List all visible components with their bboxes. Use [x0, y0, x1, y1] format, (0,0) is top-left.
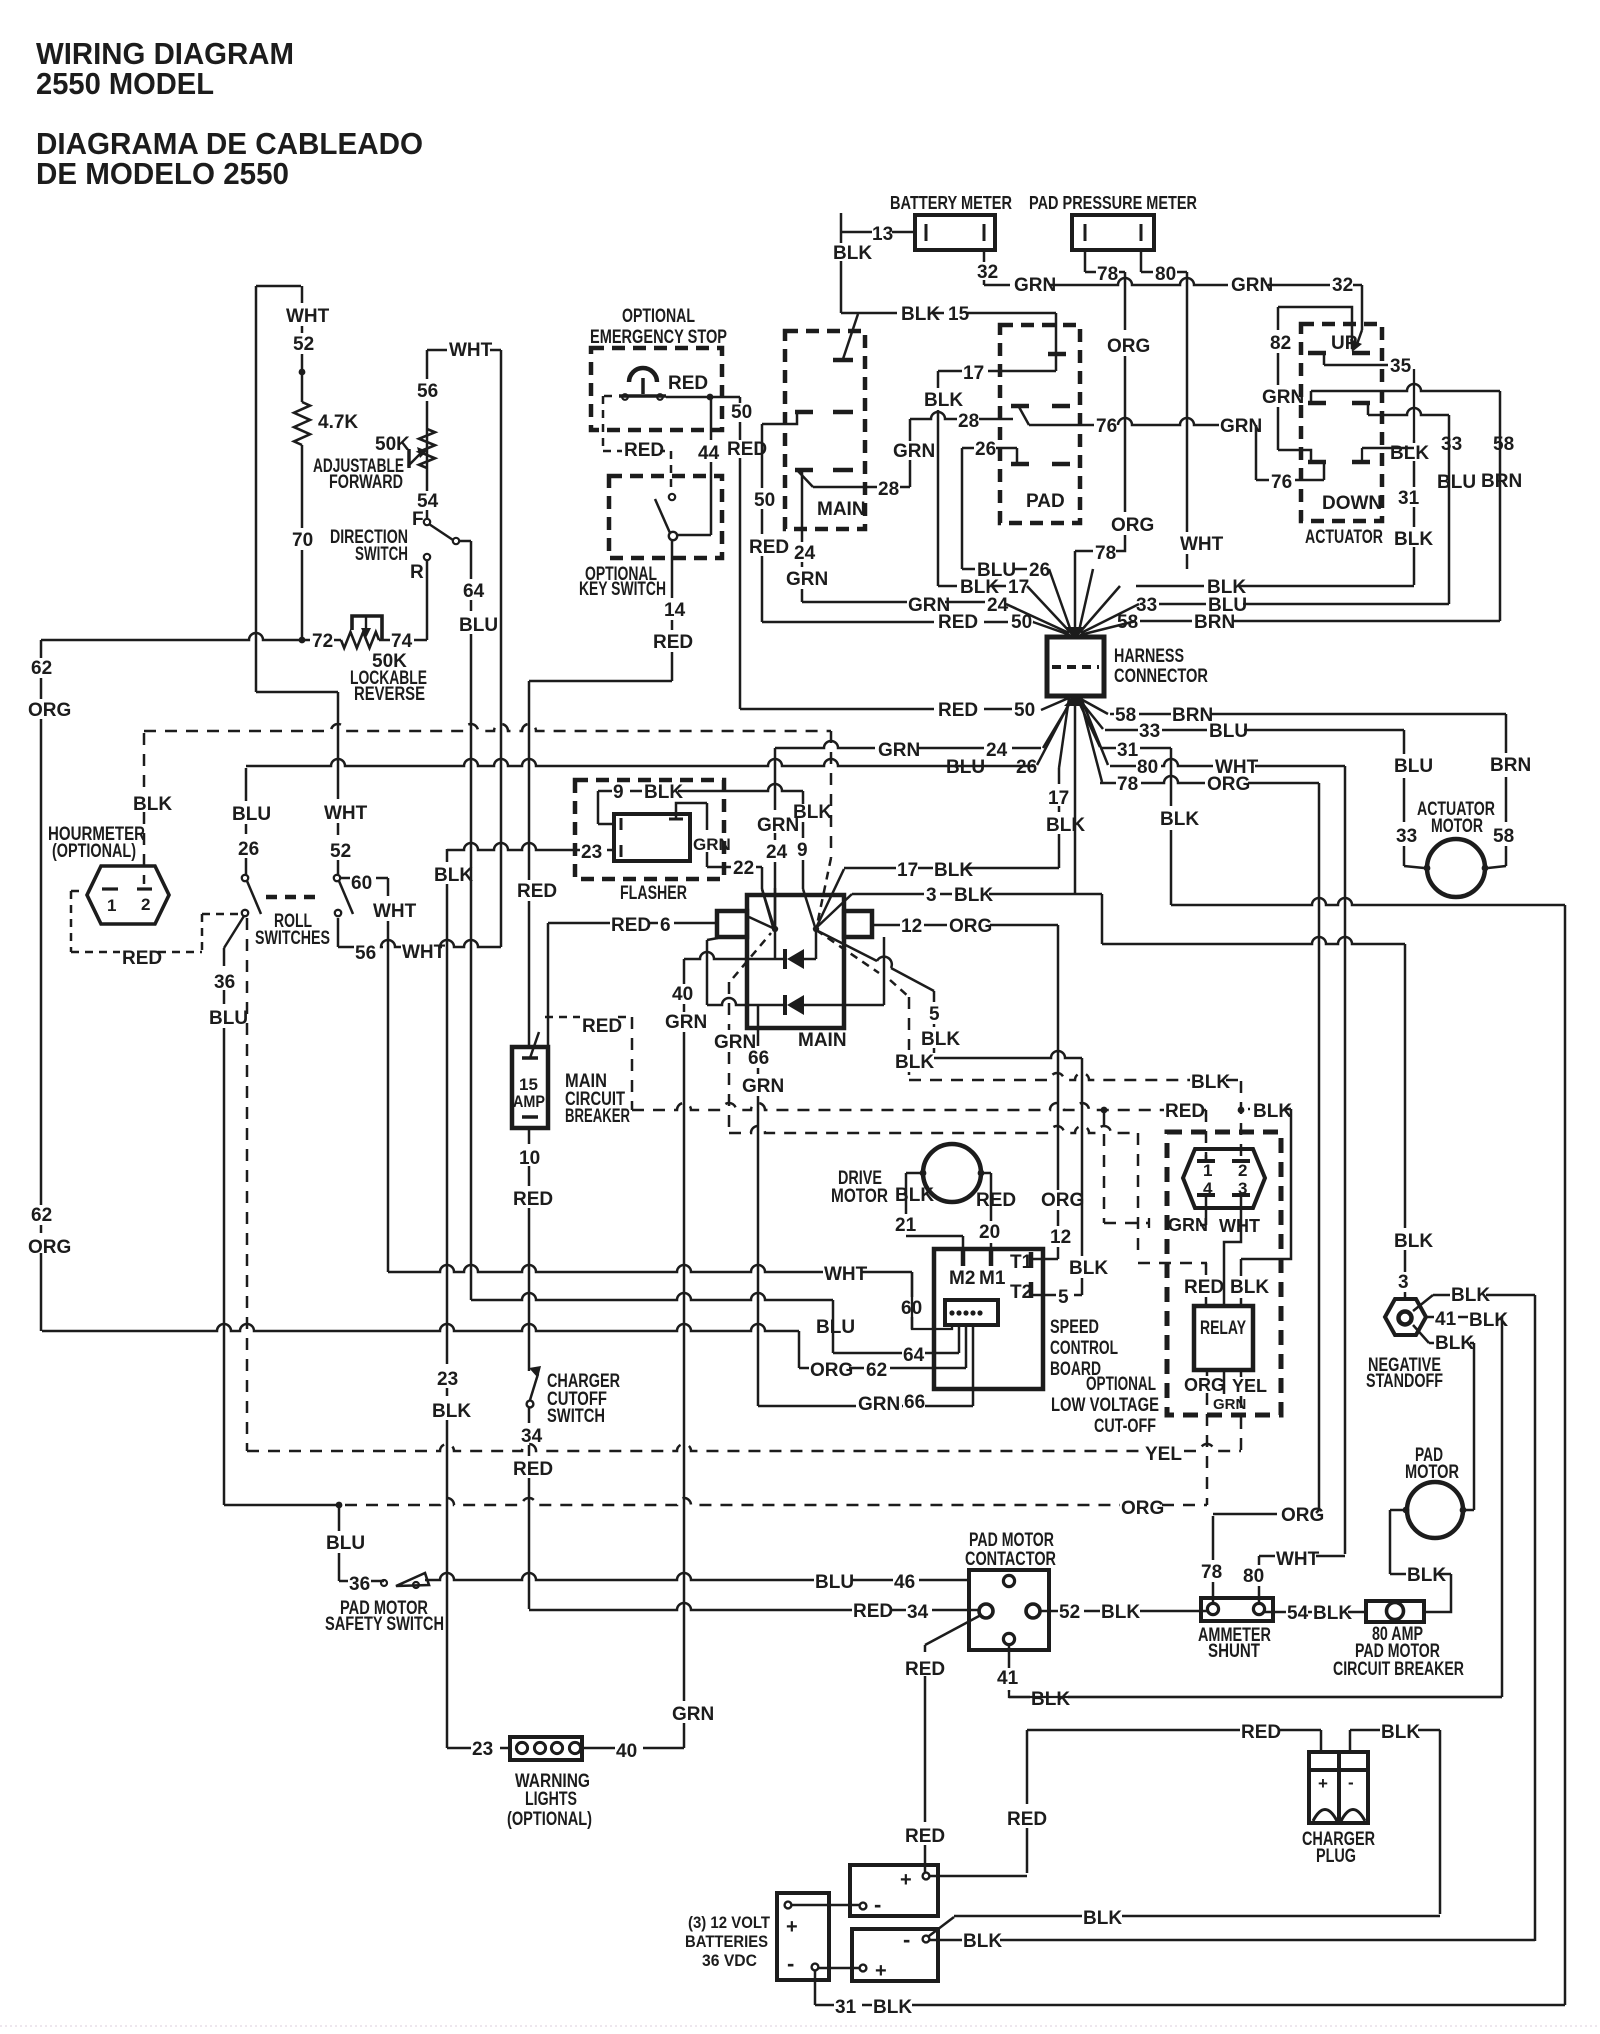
pin 3 wire WHT to relay	[1240, 1197, 1243, 1238]
drive motor	[923, 1144, 981, 1202]
speed control board	[934, 1249, 1043, 1389]
svg-text:BLK: BLK	[1160, 809, 1199, 830]
pad motor	[1407, 1482, 1463, 1538]
solid BLK wire from dot to relay	[1248, 1108, 1291, 1111]
svg-text:RED: RED	[122, 948, 162, 969]
svg-text:23: 23	[437, 1369, 458, 1390]
harness bottom fan	[1041, 697, 1071, 710]
svg-text:58: 58	[1493, 826, 1514, 847]
svg-text:BLU: BLU	[232, 804, 271, 825]
wire 54 BLK shunt to breaker	[1265, 1611, 1366, 1614]
svg-text:BRN: BRN	[1194, 612, 1235, 633]
svg-text:BLK: BLK	[1101, 1602, 1140, 1623]
svg-text:ACTUATOR: ACTUATOR	[1305, 527, 1383, 548]
svg-text:R: R	[410, 562, 424, 583]
svg-text:SPEED: SPEED	[1050, 1317, 1099, 1338]
svg-text:REVERSE: REVERSE	[354, 684, 425, 705]
svg-text:5: 5	[1058, 1287, 1069, 1308]
svg-text:24: 24	[794, 543, 816, 564]
svg-text:SWITCH: SWITCH	[355, 544, 408, 565]
relay bottom wires ORG YEL GRN	[1206, 1370, 1209, 1376]
svg-text:70: 70	[292, 530, 313, 551]
svg-text:AMP: AMP	[513, 1092, 545, 1111]
svg-text:CONTACTOR: CONTACTOR	[965, 1549, 1056, 1570]
dashed BLK from right junction	[816, 930, 879, 973]
wire GRN 66 rail	[757, 1005, 760, 1406]
svg-text:BLK: BLK	[1451, 1285, 1490, 1306]
faint bottom scan edge	[0, 2025, 1600, 2027]
svg-text:BLK: BLK	[1253, 1101, 1292, 1122]
MAIN contactor box	[785, 331, 865, 529]
svg-text:64: 64	[463, 581, 485, 602]
svg-text:SWITCHES: SWITCHES	[255, 928, 330, 949]
svg-text:BLU: BLU	[1394, 756, 1433, 777]
svg-text:33: 33	[1441, 434, 1462, 455]
wire GRN 24 harness to diode board	[775, 741, 1041, 748]
svg-text:34: 34	[907, 1602, 929, 1623]
wire 58 BRN from actuator	[1310, 391, 1313, 403]
svg-text:WHT: WHT	[1276, 1549, 1320, 1570]
wire 36 BLU to safety switch	[224, 1504, 339, 1507]
harness top wire 33 BLU	[1159, 603, 1449, 606]
svg-text:31: 31	[835, 1997, 857, 2018]
wire 54 from pot to F	[426, 429, 429, 519]
svg-text:LOW VOLTAGE: LOW VOLTAGE	[1051, 1395, 1159, 1416]
svg-text:ORG: ORG	[1281, 1505, 1324, 1526]
wire BLU 26 long line	[246, 759, 1035, 766]
wire 21 drive motor M2	[906, 1172, 923, 1175]
dashed wire to relay RED pin	[1137, 1133, 1140, 1251]
svg-text:BLK: BLK	[1407, 1565, 1446, 1586]
svg-text:58: 58	[1493, 434, 1514, 455]
svg-text:54: 54	[1287, 1603, 1309, 1624]
svg-text:62: 62	[866, 1360, 887, 1381]
wire 24 GRN from MAIN to harness	[801, 472, 804, 602]
fan into left junction	[749, 917, 775, 929]
svg-text:HARNESS: HARNESS	[1114, 646, 1184, 667]
svg-text:36: 36	[214, 972, 235, 993]
svg-text:RED: RED	[938, 700, 978, 721]
svg-text:ORG: ORG	[1107, 336, 1150, 357]
roll switch link	[266, 895, 322, 900]
wire 17 BLK below harness	[1058, 768, 1061, 868]
svg-text:BLU: BLU	[946, 757, 985, 778]
wire 3 BLK to standoff	[1404, 944, 1407, 1299]
svg-text:GRN: GRN	[693, 835, 731, 854]
wire RED contactor to battery	[925, 1615, 981, 1645]
svg-text:RED: RED	[976, 1190, 1016, 1211]
potentiometer 50K adjustable forward	[419, 429, 435, 468]
warning lights (optional)	[510, 1737, 582, 1760]
wire 14 RED from key switch	[671, 540, 674, 681]
svg-text:BLU: BLU	[977, 560, 1016, 581]
dashed ORG wire	[336, 1502, 343, 1509]
svg-text:10: 10	[519, 1148, 540, 1169]
wire GRN 66 to board	[758, 1405, 973, 1408]
wire BLK 23 rail down	[446, 849, 449, 1745]
wire 23 to warning lights	[447, 1747, 510, 1750]
svg-text:SAFETY SWITCH: SAFETY SWITCH	[325, 1614, 444, 1635]
wire 78 ORG to shunt	[1212, 1516, 1215, 1603]
svg-text:41: 41	[997, 1668, 1019, 1689]
wire BLU 46 to contactor	[425, 1573, 969, 1580]
dashed RED from breaker	[545, 1016, 632, 1019]
svg-text:PLUG: PLUG	[1316, 1846, 1356, 1867]
svg-text:BLK: BLK	[934, 860, 973, 881]
wire 36 BLU from roll switch 1	[224, 916, 244, 948]
svg-text:BLU: BLU	[1209, 721, 1248, 742]
relay	[1194, 1306, 1253, 1370]
svg-text:BLK: BLK	[1230, 1277, 1269, 1298]
actuator pins	[1308, 351, 1326, 356]
svg-text:56: 56	[355, 943, 376, 964]
svg-text:44: 44	[698, 443, 720, 464]
charger plug	[1309, 1752, 1368, 1823]
svg-text:MAIN: MAIN	[798, 1030, 847, 1051]
svg-text:STANDOFF: STANDOFF	[1366, 1371, 1443, 1392]
wire 13 to battery meter	[841, 231, 915, 234]
svg-text:DE MODELO 2550: DE MODELO 2550	[36, 156, 289, 191]
svg-text:BATTERY METER: BATTERY METER	[890, 192, 1012, 213]
svg-text:GRN: GRN	[1014, 275, 1056, 296]
svg-text:28: 28	[878, 479, 899, 500]
svg-text:GRN: GRN	[1231, 275, 1273, 296]
wire 80 WHT to shunt	[1258, 1556, 1261, 1603]
wire 50 from MAIN mid pin to harness	[762, 412, 797, 424]
svg-text:RED: RED	[749, 537, 789, 558]
svg-text:DOWN: DOWN	[1322, 493, 1382, 514]
svg-text:50K: 50K	[375, 434, 410, 455]
svg-text:GRN: GRN	[757, 815, 799, 836]
wire WHT 52 rail left	[255, 286, 258, 692]
svg-text:24: 24	[987, 595, 1009, 616]
svg-text:BLU: BLU	[209, 1008, 248, 1029]
svg-text:FLASHER: FLASHER	[620, 883, 687, 904]
actuator motor	[1427, 839, 1485, 897]
svg-text:33: 33	[1136, 595, 1157, 616]
svg-text:-: -	[787, 1951, 794, 1976]
svg-text:(OPTIONAL): (OPTIONAL)	[52, 841, 136, 862]
svg-text:54: 54	[417, 491, 439, 512]
svg-text:GRN: GRN	[665, 1012, 707, 1033]
pad motor safety switch	[339, 1580, 384, 1583]
svg-text:RED: RED	[624, 440, 664, 461]
svg-text:BLK: BLK	[434, 865, 473, 886]
svg-text:2: 2	[141, 895, 150, 914]
svg-text:GRN: GRN	[878, 740, 920, 761]
svg-text:CIRCUIT BREAKER: CIRCUIT BREAKER	[1333, 1659, 1464, 1680]
svg-text:22: 22	[733, 858, 754, 879]
dashed RED line to low voltage cutoff	[632, 1103, 1206, 1110]
svg-text:RED: RED	[1007, 1809, 1047, 1830]
main circuit breaker	[512, 1047, 548, 1128]
svg-text:SWITCH: SWITCH	[547, 1406, 605, 1427]
wire 31 BLK from actuator down to harness	[1413, 440, 1416, 585]
harness bottom 58 BRN	[1110, 713, 1506, 716]
wire 28 GRN from MAIN switch to PAD switch	[813, 486, 910, 489]
svg-text:RED: RED	[582, 1016, 622, 1037]
svg-text:26: 26	[1016, 757, 1037, 778]
svg-text:F: F	[412, 509, 424, 530]
wire 17 BLK from PAD	[938, 370, 1056, 373]
wire 33 BLU from actuator	[1367, 403, 1370, 415]
wire WHT 52 resistor branch	[301, 286, 304, 402]
MAIN diode board	[747, 895, 844, 1028]
battery 1	[850, 1865, 938, 1916]
svg-text:RED: RED	[513, 1189, 553, 1210]
svg-text:BLK: BLK	[1046, 815, 1085, 836]
svg-text:76: 76	[1271, 472, 1292, 493]
svg-text:BLK: BLK	[833, 243, 872, 264]
MAIN top pin	[833, 358, 853, 363]
svg-text:RED: RED	[653, 632, 693, 653]
OPTIONAL KEY SWITCH box	[609, 476, 722, 558]
wire RED dashed from hourmeter to roll switch	[71, 890, 85, 893]
svg-text:17: 17	[897, 860, 918, 881]
svg-text:KEY SWITCH: KEY SWITCH	[579, 579, 666, 600]
svg-text:CUT-OFF: CUT-OFF	[1094, 1416, 1156, 1437]
svg-text:BLK: BLK	[873, 1997, 912, 2018]
wire GRN 40 from left junction	[684, 952, 775, 959]
svg-text:40: 40	[672, 984, 693, 1005]
svg-text:56: 56	[417, 381, 438, 402]
wire 5 BLK from right junction	[816, 930, 934, 991]
svg-text:BLK: BLK	[1435, 1333, 1474, 1354]
mushroom button	[629, 368, 657, 382]
wire 31 harness bottom	[1100, 747, 1171, 750]
svg-text:BRN: BRN	[1172, 705, 1213, 726]
wire BLK 9 down to diode board	[802, 791, 805, 889]
svg-text:52: 52	[1059, 1602, 1080, 1623]
svg-text:T1: T1	[1010, 1252, 1033, 1273]
svg-text:24: 24	[986, 740, 1008, 761]
svg-text:BLK: BLK	[924, 390, 963, 411]
svg-text:BLK: BLK	[1069, 1258, 1108, 1279]
wire 32 down to UP arrow	[1361, 285, 1364, 330]
pin 4 wire GRN	[1205, 1155, 1208, 1161]
svg-text:40: 40	[616, 1741, 637, 1762]
svg-text:-: -	[874, 1892, 881, 1917]
wire BLK 15	[843, 314, 858, 359]
svg-text:CONNECTOR: CONNECTOR	[1114, 666, 1208, 687]
svg-text:RED: RED	[1241, 1722, 1281, 1743]
svg-text:GRN: GRN	[742, 1076, 784, 1097]
svg-text:GRN: GRN	[672, 1704, 714, 1725]
svg-text:BLK: BLK	[1394, 1231, 1433, 1252]
svg-text:LIGHTS: LIGHTS	[525, 1789, 577, 1810]
svg-text:RED: RED	[517, 881, 557, 902]
MAIN lower pins and switch	[795, 468, 813, 473]
svg-text:BLU: BLU	[1437, 472, 1476, 493]
wire BLK dashed to hourmeter	[143, 733, 146, 884]
svg-text:WHT: WHT	[402, 942, 446, 963]
svg-text:BLK: BLK	[895, 1052, 934, 1073]
dashed line row 3	[729, 1126, 1138, 1133]
T1 T2 pins	[1029, 1252, 1034, 1268]
connector on board	[945, 1300, 998, 1325]
wire 80 WHT from pad meter	[1140, 250, 1143, 272]
wire BLK from charger plug	[1349, 1730, 1352, 1752]
svg-text:3: 3	[1238, 1179, 1247, 1198]
svg-text:GRN: GRN	[1168, 1215, 1208, 1235]
wire 76 GRN into actuator	[1255, 425, 1258, 480]
dashed YEL wire	[247, 1444, 1241, 1451]
svg-text:31: 31	[1117, 740, 1139, 761]
svg-text:ORG: ORG	[1207, 774, 1250, 795]
wire 41 BLK from contactor	[1008, 1645, 1011, 1692]
svg-text:35: 35	[1390, 356, 1412, 377]
svg-text:33: 33	[1396, 826, 1417, 847]
svg-text:4: 4	[1203, 1179, 1213, 1198]
PAD contactor box	[1000, 325, 1080, 523]
svg-text:17: 17	[1048, 788, 1069, 809]
svg-text:12: 12	[1050, 1227, 1071, 1248]
svg-text:26: 26	[1029, 560, 1050, 581]
svg-text:BLK: BLK	[895, 1185, 934, 1206]
svg-text:WHT: WHT	[373, 901, 417, 922]
dashed BLK to pin 2	[1240, 1081, 1243, 1161]
wire RED 50 from e-stop	[666, 396, 740, 399]
svg-text:+: +	[900, 1869, 912, 1891]
roll switch 2	[334, 875, 340, 881]
wire from left tab down to lower diode	[707, 938, 718, 940]
svg-text:WHT: WHT	[449, 340, 493, 361]
svg-text:58: 58	[1115, 705, 1136, 726]
diode junctions	[772, 926, 778, 932]
svg-text:ORG: ORG	[1184, 1375, 1225, 1395]
FLASHER box	[575, 780, 724, 879]
svg-text:78: 78	[1095, 543, 1116, 564]
wire BLU 26 to roll switch 1	[245, 768, 248, 875]
left tab RED 6	[717, 911, 747, 937]
svg-text:BLK: BLK	[963, 1931, 1002, 1952]
e-stop left bracket to key switch RED	[604, 395, 612, 398]
svg-text:28: 28	[958, 411, 979, 432]
svg-text:50: 50	[1014, 700, 1035, 721]
svg-text:3: 3	[1398, 1272, 1409, 1293]
wire BLK pad motor right	[1463, 1509, 1474, 1512]
svg-text:RED: RED	[513, 1459, 553, 1480]
svg-text:52: 52	[293, 334, 314, 355]
svg-text:BLK: BLK	[1313, 1603, 1352, 1624]
OPTIONAL LOW VOLTAGE CUT-OFF box	[1167, 1132, 1281, 1415]
svg-text:WHT: WHT	[324, 803, 368, 824]
battery interconnect wires	[930, 1875, 1027, 1878]
svg-text:31: 31	[1398, 488, 1420, 509]
svg-text:15: 15	[948, 304, 970, 325]
svg-text:36 VDC: 36 VDC	[702, 1951, 757, 1970]
svg-text:YEL: YEL	[1232, 1376, 1267, 1396]
svg-text:BATTERIES: BATTERIES	[685, 1932, 768, 1951]
svg-text:BLU: BLU	[815, 1572, 854, 1593]
svg-text:PAD PRESSURE METER: PAD PRESSURE METER	[1029, 192, 1197, 213]
svg-text:RED: RED	[1184, 1277, 1224, 1298]
ammeter shunt	[1201, 1598, 1273, 1621]
svg-text:GRN: GRN	[786, 569, 828, 590]
80 AMP pad motor circuit breaker	[1366, 1601, 1424, 1622]
svg-text:BLK: BLK	[1390, 443, 1429, 464]
wire 33 BLU to actuator motor	[1403, 730, 1406, 866]
wire down to roll switch 2	[337, 692, 340, 875]
battery 2	[852, 1929, 938, 1981]
svg-text:MOTOR: MOTOR	[831, 1186, 888, 1207]
svg-text:26: 26	[238, 839, 259, 860]
svg-text:64: 64	[903, 1345, 925, 1366]
svg-text:1: 1	[107, 896, 116, 915]
svg-text:PAD: PAD	[1026, 491, 1065, 512]
svg-text:46: 46	[894, 1572, 915, 1593]
wire 10 RED breaker to charger cutoff switch	[528, 1128, 531, 1371]
svg-text:BLK: BLK	[1191, 1072, 1230, 1093]
svg-text:ORG: ORG	[949, 916, 992, 937]
svg-text:32: 32	[977, 262, 998, 283]
wire BLK battery to right	[929, 1917, 954, 1936]
svg-text:36: 36	[349, 1574, 370, 1595]
svg-text:ORG: ORG	[1041, 1190, 1084, 1211]
wire 82 GRN	[1278, 307, 1352, 349]
svg-text:M2: M2	[949, 1268, 975, 1289]
svg-text:FORWARD: FORWARD	[329, 472, 403, 493]
svg-text:78: 78	[1117, 774, 1138, 795]
standoff wire BLK top	[1413, 1295, 1433, 1311]
svg-text:80: 80	[1155, 264, 1176, 285]
svg-text:RED: RED	[611, 915, 651, 936]
svg-text:BLK: BLK	[133, 794, 172, 815]
svg-text:52: 52	[330, 841, 351, 862]
svg-text:ORG: ORG	[1121, 1498, 1164, 1519]
svg-text:14: 14	[664, 600, 686, 621]
wire 62 ORG left rail	[40, 640, 43, 1331]
wire RED to charger plug	[1320, 1730, 1323, 1752]
wire 34 RED to contactor	[528, 1407, 531, 1609]
direction switch	[424, 554, 430, 560]
svg-text:BLK: BLK	[1394, 529, 1433, 550]
resistor 4.7K	[294, 402, 310, 445]
svg-text:3: 3	[926, 885, 937, 906]
svg-text:GRN: GRN	[858, 1394, 900, 1415]
wire 52 BLK contactor to shunt	[1041, 1610, 1207, 1613]
svg-text:GRN: GRN	[1262, 387, 1304, 408]
svg-text:WHT: WHT	[824, 1264, 868, 1285]
svg-text:76: 76	[1096, 416, 1117, 437]
svg-text:BLK: BLK	[901, 304, 940, 325]
svg-text:BLK: BLK	[954, 885, 993, 906]
svg-text:78: 78	[1201, 1562, 1222, 1583]
svg-text:-: -	[903, 1927, 910, 1952]
wire WHT rail from direction switch	[500, 350, 503, 947]
svg-text:OPTIONAL: OPTIONAL	[622, 306, 695, 327]
svg-text:+: +	[875, 1960, 887, 1982]
svg-text:MOTOR: MOTOR	[1431, 816, 1483, 837]
wire 80 WHT harness bottom	[1110, 759, 1345, 766]
ACTUATOR box	[1301, 324, 1382, 521]
svg-text:9: 9	[613, 782, 624, 803]
wire 56 WHT from roll switch 2	[337, 918, 340, 947]
wire BLK breaker to pad motor	[1424, 1574, 1451, 1612]
wire 12 ORG from right tab	[872, 924, 1058, 927]
svg-text:OPTIONAL: OPTIONAL	[1086, 1374, 1156, 1395]
wire 58 BRN to actuator motor	[1505, 714, 1508, 866]
svg-text:5: 5	[929, 1004, 940, 1025]
wire 20 drive motor M1	[981, 1172, 991, 1175]
svg-text:41: 41	[1435, 1309, 1457, 1330]
lower diode	[707, 998, 785, 1005]
cutoff hexagon connector	[1183, 1149, 1265, 1208]
svg-text:ORG: ORG	[1111, 515, 1154, 536]
svg-text:74: 74	[391, 631, 413, 652]
svg-text:BRN: BRN	[1481, 471, 1522, 492]
dashed GRN from left junction	[733, 933, 771, 978]
